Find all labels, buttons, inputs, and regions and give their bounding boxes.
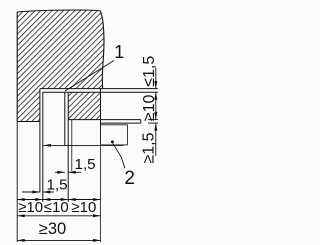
strip bottom line [101, 122, 141, 124]
dim L3 left segment + arrow [22, 191, 40, 193]
dim L1 line [44, 144, 124, 146]
wall bottom-left edge [17, 121, 40, 123]
profile left leg outer line [39, 89, 41, 193]
leader dot for 2 [111, 140, 114, 143]
svg-text:1,5: 1,5 [47, 177, 68, 194]
right stack seg C + arrow up [155, 123, 157, 156]
svg-text:≥10: ≥10 [71, 199, 96, 216]
wall section hatched fill (top block) [17, 10, 104, 122]
profile left leg inner line [42, 92, 44, 202]
block bottom / strip top h3 [68, 119, 141, 121]
leader line 1 [65, 61, 114, 92]
right stack seg B + arrows [155, 92, 157, 119]
row C dim line [17, 199, 100, 201]
left ext line down [16, 122, 18, 243]
L1 arrow left [44, 144, 52, 147]
block right edge [100, 89, 102, 127]
dim L2 right segment + arrow [68, 171, 81, 173]
row C arrows [17, 198, 25, 201]
profile right leg inner line [64, 92, 66, 146]
short extension line right of leg [71, 120, 73, 171]
row E dim line (text cropped) [17, 239, 100, 241]
dim L3 right segment + arrow [43, 191, 54, 193]
lower-right hatched block fill [68, 92, 100, 119]
svg-text:≤1,5: ≤1,5 [141, 56, 158, 87]
svg-text:≥30: ≥30 [39, 220, 66, 238]
row D dim line [17, 215, 100, 217]
svg-text:≤10: ≤10 [44, 199, 69, 216]
line h1 underside of wall + extension right [40, 88, 158, 90]
svg-text:≥1,5: ≥1,5 [140, 132, 157, 163]
wall outline: left edge [16, 12, 18, 122]
svg-text:≥10: ≥10 [141, 95, 158, 122]
svg-text:1,5: 1,5 [75, 156, 96, 173]
dim L2 left segment + arrow [55, 171, 65, 173]
sealing rect (light) [101, 125, 128, 145]
profile right leg outer line [67, 92, 69, 202]
wall outline: right wavy edge [100, 11, 104, 89]
svg-text:2: 2 [124, 168, 135, 189]
line h2 profile flange bottom + extension right [43, 91, 158, 93]
wall outline: top wavy edge [17, 10, 100, 12]
leader line 2 [113, 143, 125, 168]
svg-text:1: 1 [114, 42, 124, 62]
svg-text:≥10: ≥10 [18, 199, 43, 216]
right ext segs for strip [148, 119, 158, 121]
extension line down to dims [100, 127, 102, 243]
right stack seg A + arrow down [155, 68, 157, 89]
strip right end [140, 120, 142, 124]
